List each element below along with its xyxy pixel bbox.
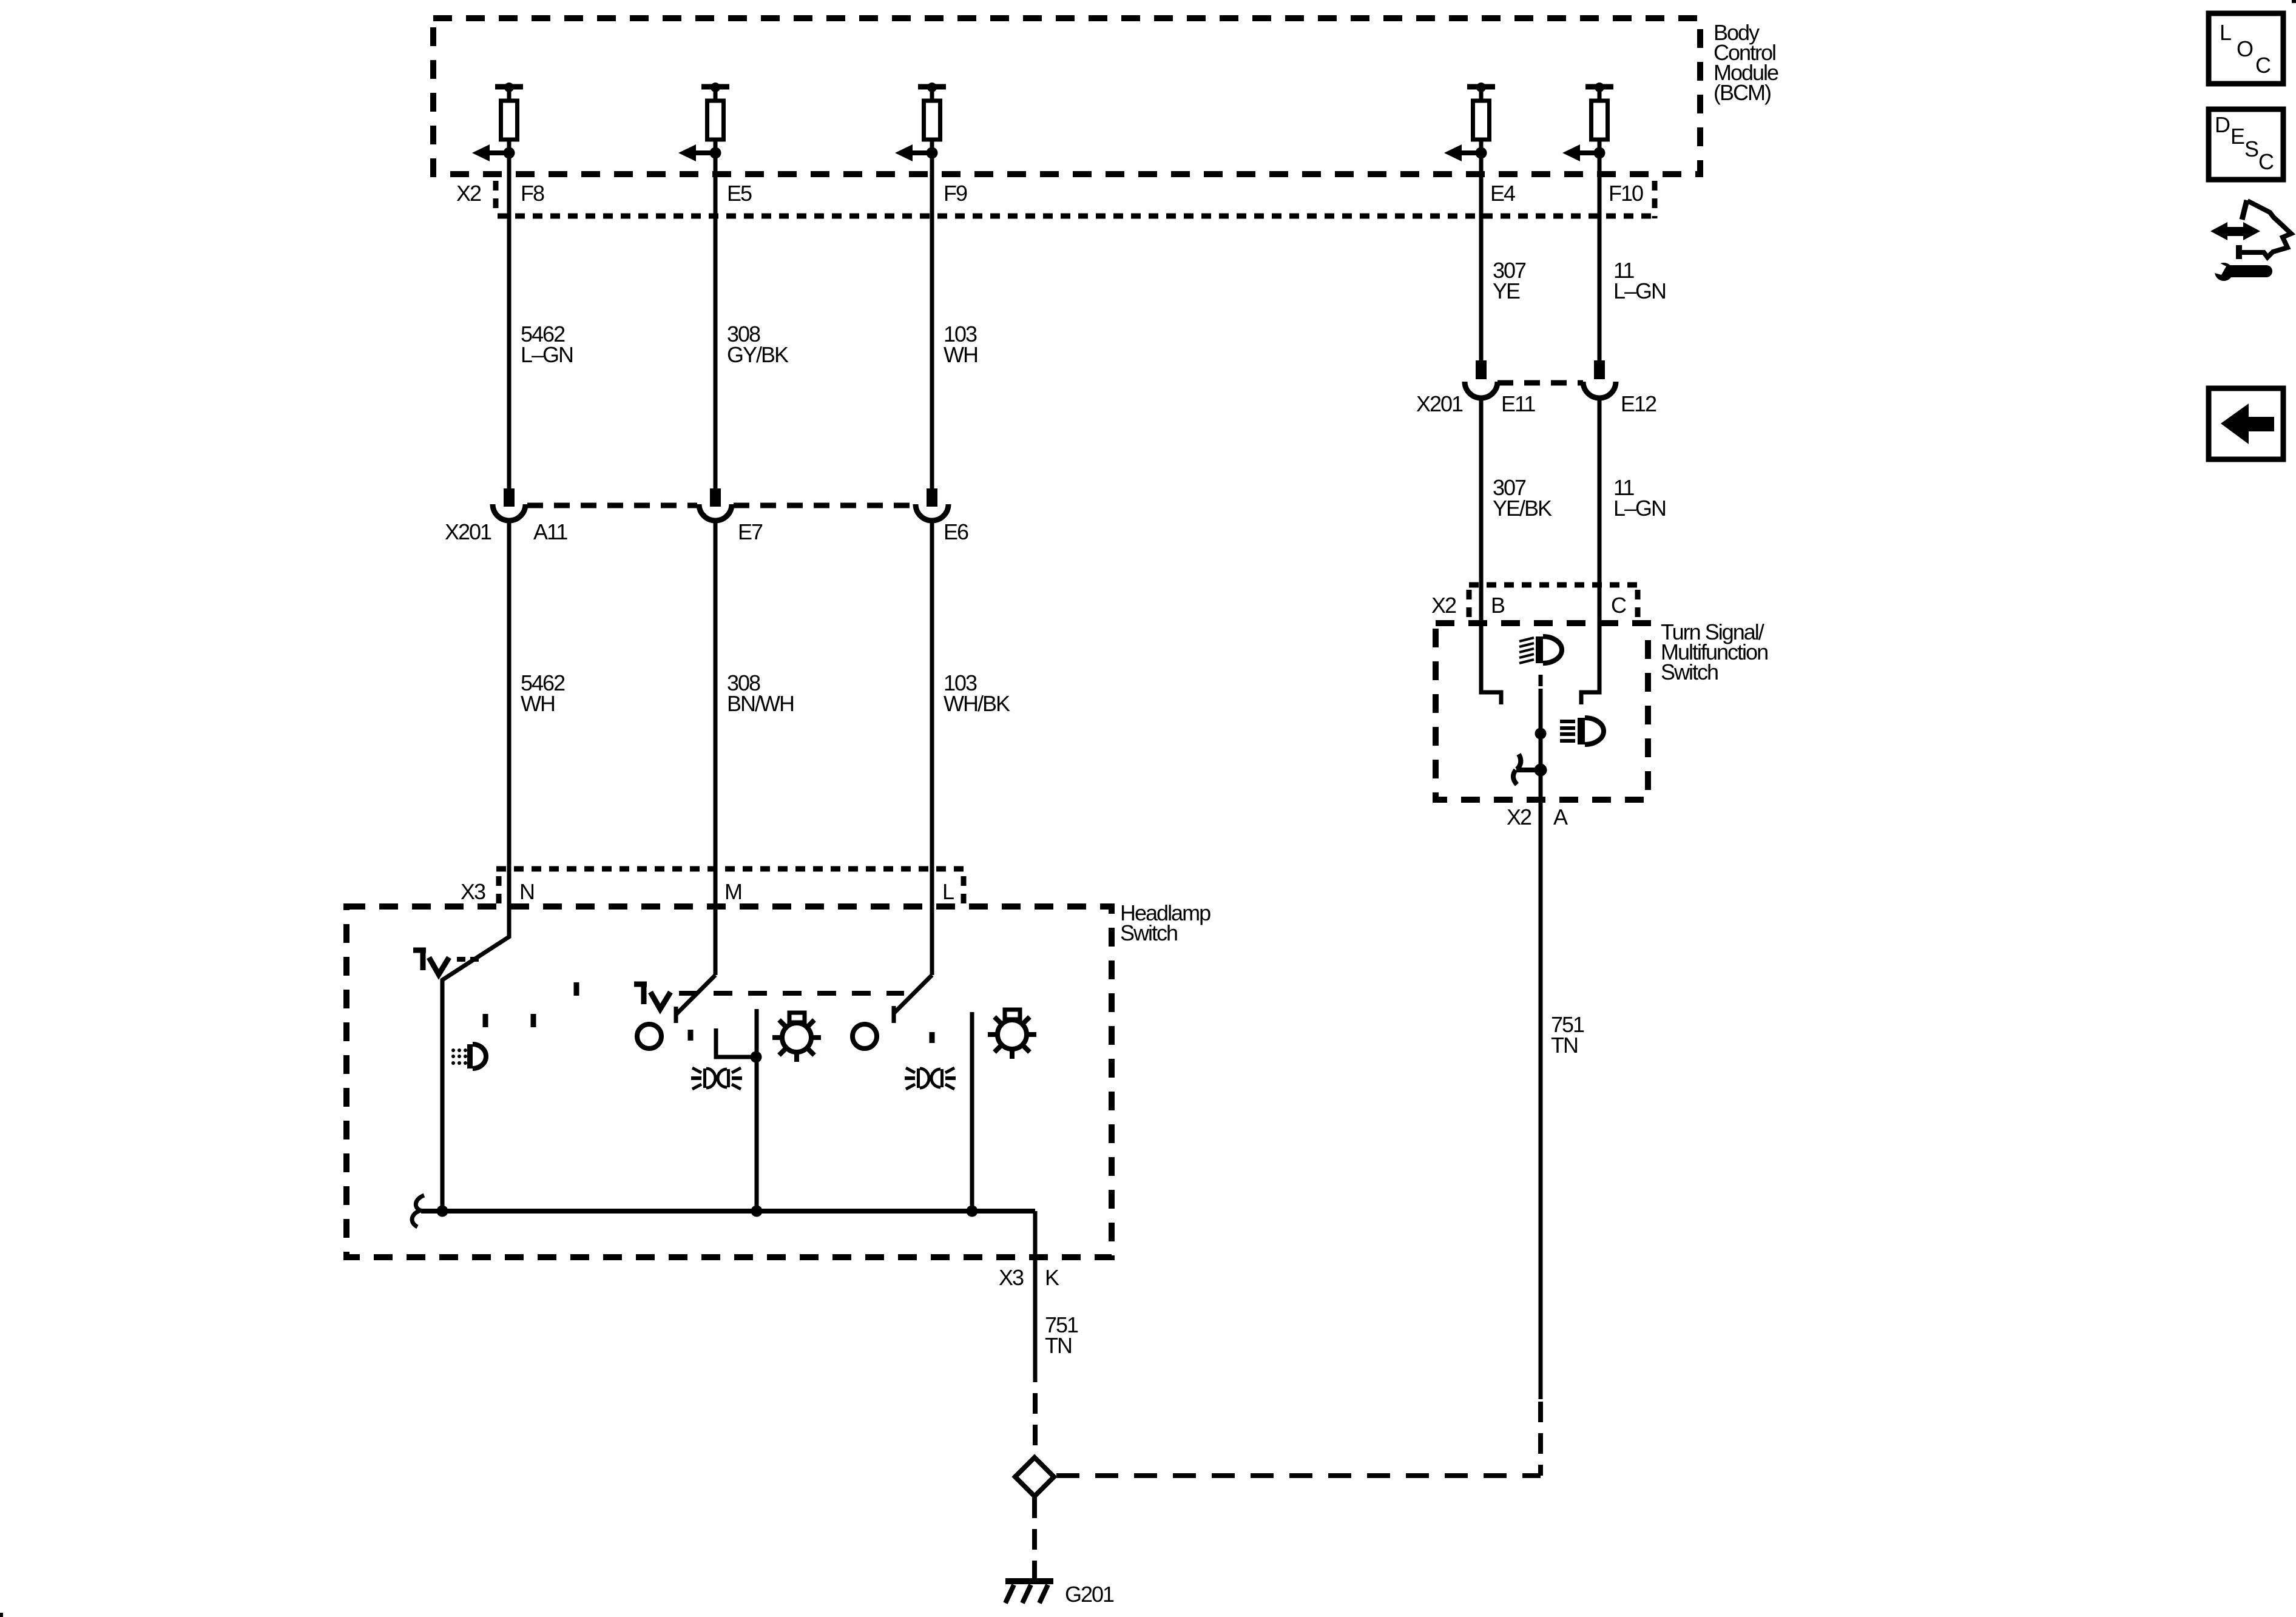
wire 103 WH/BK (X201 E6 to headlamp switch L): [930, 521, 934, 975]
BCM driver pin F9: [895, 83, 946, 161]
dashed wire splice to right: [1056, 1473, 1541, 1478]
wire 5462 L-GN (F8 to X201 A11): [507, 153, 512, 489]
connector X201 terminal E12: [1583, 360, 1616, 398]
connector X3 right bracket: [961, 876, 967, 905]
wire 103 WH (F9 to X201 E6): [930, 153, 934, 489]
contact circle (L): [853, 1024, 877, 1048]
svg-text:L: L: [942, 879, 954, 904]
switch pivot symbol (N): [413, 950, 449, 974]
svg-text:X3: X3: [999, 1265, 1024, 1290]
connector X201 right dashed line: [1497, 380, 1583, 386]
svg-text:M: M: [724, 879, 741, 904]
linkage dashes (N): [457, 957, 479, 962]
panel lamp icon (left): [772, 1013, 821, 1062]
BCM driver pin F10: [1562, 83, 1613, 161]
BCM driver pin F8: [472, 83, 523, 161]
connector X2 right bracket: [1635, 590, 1641, 618]
svg-text:TN: TN: [1551, 1033, 1578, 1058]
svg-text:N: N: [519, 879, 534, 904]
mechanical linkage dashed line: [679, 991, 904, 996]
svg-text:E5: E5: [727, 181, 752, 206]
headlamps icon (right): [905, 1068, 956, 1089]
dimmer switch lever: [1513, 754, 1541, 785]
low beam indicator icon: [1560, 718, 1604, 744]
svg-text:WH: WH: [944, 342, 977, 367]
node at bracket junction: [751, 1052, 762, 1063]
switch blade M: [676, 975, 715, 1014]
svg-text:E: E: [2230, 124, 2244, 149]
branch wire center (bracket to bus): [716, 1028, 755, 1057]
connector X201 terminal E11: [1465, 360, 1497, 398]
high beam indicator icon: [1519, 636, 1562, 663]
stray mark top right: [2292, 0, 2296, 3]
svg-text:C: C: [1611, 593, 1626, 618]
BCM driver pin E5: [678, 83, 729, 161]
svg-text:Switch: Switch: [1661, 660, 1718, 684]
connector X201 left dashed line: [527, 503, 697, 508]
node bus right: [967, 1206, 978, 1217]
connector X2 left bracket: [1467, 590, 1472, 618]
switch pivot symbol (M): [634, 984, 670, 1009]
svg-text:X2: X2: [1507, 805, 1531, 829]
svg-text:E12: E12: [1621, 391, 1656, 416]
svg-text:(BCM): (BCM): [1714, 80, 1771, 105]
connector X201 terminal A11: [493, 488, 525, 521]
node bus center: [751, 1206, 763, 1217]
wiper curl: [412, 1195, 424, 1227]
svg-text:L–GN: L–GN: [1613, 279, 1666, 303]
svg-text:X201: X201: [1416, 391, 1463, 416]
svg-text:L: L: [2220, 20, 2231, 45]
wire 11 L-GN (F10 to X201 E12): [1598, 153, 1602, 360]
DESC box: [2209, 109, 2283, 180]
svg-text:L–GN: L–GN: [521, 342, 573, 367]
svg-text:G201: G201: [1065, 1582, 1114, 1607]
wire 308 BN/WH (X201 E7 to headlamp switch M): [714, 521, 718, 975]
svg-text:A11: A11: [533, 519, 567, 544]
svg-text:X2: X2: [456, 181, 481, 206]
parking lamp icon: [451, 1044, 486, 1068]
svg-text:F10: F10: [1609, 181, 1643, 206]
svg-text:X201: X201: [445, 519, 491, 544]
connector X201 terminal E7: [699, 488, 732, 521]
position tick marks: [483, 1014, 488, 1027]
svg-text:E7: E7: [738, 519, 763, 544]
wire 5462 WH (X201 A11 to headlamp switch N): [442, 521, 509, 1211]
svg-text:C: C: [2255, 53, 2271, 78]
junction node on wire A: [1535, 728, 1547, 740]
BCM driver pin E4: [1444, 83, 1495, 161]
back arrow box: [2209, 388, 2283, 459]
svg-text:F9: F9: [944, 181, 967, 206]
connector X3 dotted line: [496, 866, 965, 872]
connector X2 (multifunction switch) dotted line: [1469, 582, 1638, 588]
connector X2 left bracket: [493, 181, 499, 210]
wire 307 YE (E4 to X201 E11): [1479, 153, 1484, 360]
bottom bus wire: [421, 1209, 1035, 1214]
Headlamp Switch box: [346, 906, 1112, 1257]
wire 11 L-GN (X201 E12 to multifunction switch C): [1581, 398, 1599, 704]
wire stub above dimmer switch: [1539, 675, 1543, 686]
svg-text:B: B: [1491, 593, 1505, 618]
svg-text:YE/BK: YE/BK: [1493, 496, 1552, 521]
svg-text:D: D: [2215, 112, 2230, 137]
svg-text:X2: X2: [1431, 593, 1456, 618]
wire 307 YE/BK (X201 E11 to multifunction switch B): [1481, 398, 1501, 704]
svg-text:O: O: [2237, 36, 2253, 61]
svg-text:Switch: Switch: [1120, 920, 1177, 945]
connector X201 terminal E6: [916, 488, 948, 521]
ground G201: [1005, 1581, 1053, 1603]
dashed wire up to A: [1538, 1402, 1543, 1476]
splice S-diamond: [1015, 1457, 1054, 1496]
headlamps icon (left): [691, 1068, 742, 1089]
LOC box: [2209, 13, 2283, 84]
Body Control Module (BCM) box: [433, 18, 1700, 174]
stray mark bottom left: [0, 1613, 3, 1617]
connector X2 (BCM) dotted line: [498, 214, 1655, 219]
svg-text:K: K: [1045, 1265, 1059, 1290]
wire 308 GY/BK (E5 to X201 E7): [714, 153, 718, 489]
Turn Signal / Multifunction Switch box: [1436, 623, 1648, 800]
contact circle (M): [637, 1024, 661, 1048]
wire exit to X3 K: [1033, 1211, 1038, 1382]
svg-text:L–GN: L–GN: [1613, 496, 1666, 521]
svg-text:A: A: [1553, 805, 1568, 829]
svg-text:F8: F8: [521, 181, 544, 206]
connector X2 right bracket: [1652, 181, 1658, 218]
panel lamp icon (right): [988, 1010, 1036, 1059]
svg-text:X3: X3: [461, 879, 485, 904]
svg-text:E6: E6: [944, 519, 968, 544]
junction node at lever: [1535, 764, 1547, 777]
switch blade L: [894, 975, 932, 1013]
svg-text:BN/WH: BN/WH: [727, 691, 794, 716]
svg-text:E4: E4: [1490, 181, 1515, 206]
connector X3 left bracket: [496, 876, 502, 905]
wire A (dimmer switch common): [1539, 689, 1543, 1399]
svg-text:WH/BK: WH/BK: [944, 691, 1010, 716]
wire right vertical: [970, 1012, 974, 1211]
svg-text:YE: YE: [1493, 279, 1520, 303]
svg-text:S: S: [2244, 137, 2258, 161]
node bus left: [437, 1206, 448, 1217]
svg-text:TN: TN: [1045, 1333, 1072, 1358]
svg-text:WH: WH: [521, 691, 555, 716]
adjust icon (arrow, outline, wrench): [2208, 200, 2291, 281]
svg-text:E11: E11: [1501, 391, 1535, 416]
wire center vertical: [755, 1009, 759, 1211]
svg-text:GY/BK: GY/BK: [727, 342, 789, 367]
svg-text:C: C: [2258, 149, 2274, 174]
dashed wire splice to ground: [1032, 1497, 1037, 1579]
dashed wire to splice: [1033, 1393, 1038, 1456]
